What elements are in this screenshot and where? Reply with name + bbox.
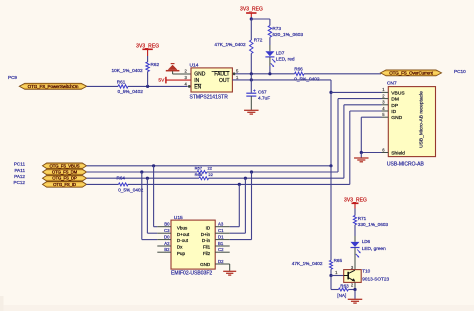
svg-text:OTG_FS_OverCurrent: OTG_FS_OverCurrent [389,71,433,76]
wire U15 GND [229,264,231,271]
capacitor C67 [250,80,252,93]
svg-text:C1: C1 [218,228,224,233]
wire ID riser to CN7 pin4 [349,111,351,184]
svg-text:22: 22 [208,172,213,177]
svg-text:ID: ID [391,109,396,115]
wire GND pin stub [173,73,191,75]
wire R62 to EN line [147,72,149,87]
wire to R73 branch [251,18,270,20]
svg-text:R63: R63 [340,283,349,288]
resistor R73 [268,26,271,38]
wire DM drop to U15 D-out [141,172,143,240]
svg-text:B1: B1 [218,241,224,246]
port OTG_FS_DM [43,169,87,175]
wire DP drop to U15 D+out [146,178,148,233]
svg-text:Shield: Shield [391,151,405,157]
port OTG_FS_ID [43,182,87,188]
svg-text:LD7: LD7 [276,51,285,56]
svg-text:PA12: PA12 [14,174,25,179]
svg-text:LED, green: LED, green [362,246,386,252]
wire VBUS drop to U15 [153,166,155,227]
pin EN bubble [188,85,191,88]
wire emitter [354,282,356,289]
wire 5V to IN pin [166,79,191,81]
svg-text:GND: GND [194,72,206,78]
svg-text:OTG_FS_DP: OTG_FS_DP [52,176,77,181]
wire DP right drop to U15 D+in [244,178,246,233]
wire base [331,275,344,277]
wire R73 to LD7 [269,37,271,45]
svg-text:OTG_FS_ID: OTG_FS_ID [53,182,76,187]
svg-text:OTG_FS_VBUS: OTG_FS_VBUS [50,163,80,168]
svg-text:U14: U14 [190,63,199,69]
U15 right pin stubs [215,226,230,228]
svg-text:GND: GND [391,115,402,121]
svg-text:330_1%_0603: 330_1%_0603 [358,222,389,227]
resistor R63 [339,288,349,291]
resistor R66 [295,72,304,75]
svg-text:USB-MICRO-AB: USB-MICRO-AB [387,161,425,167]
svg-text:R65: R65 [334,258,343,263]
svg-text:D0: D0 [164,234,170,239]
wire DP flag line [87,177,200,179]
svg-text:C67: C67 [258,90,267,95]
svg-text:CN7: CN7 [387,81,397,87]
svg-text:OTG_FS_PowerSwitchOn: OTG_FS_PowerSwitchOn [28,84,79,89]
op-amp U14 body [191,68,232,92]
wire DP riser to CN7 pin3 [343,105,345,178]
junction 3V3 split [250,17,253,20]
svg-text:R67: R67 [195,166,203,171]
CN7 pin stubs [382,91,389,93]
resistor R61 [118,85,128,88]
wire ID flag line [87,183,119,185]
wire DM flag line [87,171,198,173]
wire R63 to emitter node [348,289,355,291]
svg-text:B2: B2 [164,247,170,252]
ground at C67 [244,110,258,114]
LED LD7 [265,51,274,56]
svg-text:B0: B0 [164,222,170,227]
svg-text:OTG_FS_DM: OTG_FS_DM [52,170,78,175]
wire OUT vertical to VBUS [250,74,252,80]
svg-text:0_5%_0402: 0_5%_0402 [118,188,143,193]
U15 left pin stubs [157,226,171,228]
junction GND/shield [360,151,363,154]
ground at U15 [223,271,236,275]
junction VBUS riser [329,164,332,167]
svg-text:R71: R71 [358,216,367,221]
wire 3V3 to R62 [147,56,149,62]
svg-text:Fil2: Fil2 [203,251,211,256]
svg-text:C2: C2 [218,247,224,252]
svg-text:PC12: PC12 [14,180,26,185]
svg-text:PC9: PC9 [8,75,17,80]
svg-text:3V3_REG: 3V3_REG [344,197,367,203]
svg-text:STMPS2141STR: STMPS2141STR [190,95,229,101]
svg-text:10K_1%_0402: 10K_1%_0402 [112,68,144,74]
svg-text:3V3_REG: 3V3_REG [240,6,263,12]
svg-text:D+in: D+in [201,232,211,237]
svg-text:R66: R66 [294,66,303,71]
wire LD7 cathode to FAULT line [269,57,271,66]
wire R65 to base node [330,269,332,275]
ground at U14 GND pin [166,64,180,71]
port OTG_FS_PowerSwitchOn [19,83,86,89]
wire CN7 shield [361,152,381,154]
svg-text:DM: DM [391,97,399,103]
svg-text:PC10: PC10 [454,69,466,74]
wire VBUS flag line [87,165,332,167]
svg-text:4.7uF: 4.7uF [258,96,270,102]
junction emitter/R63 [353,288,356,291]
svg-text:47K_1%_0402: 47K_1%_0402 [292,261,323,266]
svg-text:D1: D1 [218,234,224,239]
svg-text:R61: R61 [117,79,126,84]
junction R62/EN [146,85,149,88]
svg-text:D+out: D+out [177,232,190,237]
wire R71 to LD6 [354,225,356,236]
svg-text:PA11: PA11 [14,168,25,173]
svg-text:D-out: D-out [177,238,189,243]
svg-text:LED, red: LED, red [276,57,295,63]
resistor R67 [197,171,207,174]
svg-text:0_5%_0402: 0_5%_0402 [118,89,144,95]
wire ID drop to U15 A3 [238,184,240,226]
wire LD6 to collector [354,248,356,270]
svg-text:Dx: Dx [177,245,183,250]
svg-text:5V: 5V [158,78,165,84]
resistor R68 [199,177,209,180]
svg-text:[NA]: [NA] [337,293,346,298]
port OTG_FS_OverCurrent [381,70,442,76]
transistor T10 [344,270,362,283]
svg-text:D2: D2 [218,259,224,264]
wire ID line right [128,183,350,185]
svg-text:Vbus: Vbus [177,225,188,230]
svg-text:USB_Micro-AB receptacle: USB_Micro-AB receptacle [419,91,425,148]
wire base node down to R63 [330,276,332,290]
svg-text:IN: IN [194,78,199,84]
wire DM line right [207,171,338,173]
svg-text:9013-SOT23: 9013-SOT23 [362,276,389,281]
wire VBUS to CN7 [331,91,382,93]
svg-text:R64: R64 [117,176,126,181]
svg-text:47K_1%_0402: 47K_1%_0402 [214,42,246,48]
svg-text:Pup: Pup [177,251,186,256]
resistor R62 [146,62,149,72]
svg-text:LD6: LD6 [362,239,371,244]
port OTG_FS_DP [43,175,87,181]
svg-text:R62: R62 [151,62,160,67]
junction C67/OUT [250,78,253,81]
svg-text:620_1%_0603: 620_1%_0603 [272,32,303,38]
svg-text:VBUS: VBUS [391,90,405,96]
junction LD7/FAULT [268,72,271,75]
wire OUT line [232,79,331,81]
svg-text:R72: R72 [254,38,263,43]
wire DM right drop to U15 D-in [251,172,253,240]
resistor R65 [330,260,333,269]
svg-text:FAULT: FAULT [214,72,229,78]
svg-text:22: 22 [208,166,213,171]
junction VBUS to CN7 pin1 [329,91,332,94]
svg-text:D-in: D-in [202,238,211,243]
ground at CN7 [354,158,369,162]
resistor R64 [119,183,129,186]
svg-text:DP: DP [391,103,398,109]
svg-text:R68: R68 [195,172,203,177]
ground at T10 [348,299,363,303]
junction R72/FAULT [250,72,253,75]
resistor R71 [353,216,356,225]
wire EN line right of R61 [128,85,188,87]
wire R66 to port [304,73,381,75]
svg-text:OUT: OUT [219,78,230,84]
svg-text:PC11: PC11 [14,162,26,167]
svg-text:A3: A3 [218,222,224,227]
LED LD6 [351,242,360,247]
svg-text:EMIF02-USB03F2: EMIF02-USB03F2 [171,271,212,277]
junction base node [329,274,332,277]
svg-text:Fil1: Fil1 [203,245,211,250]
wire DM riser to CN7 pin2 [337,99,339,172]
svg-text:C3: C3 [164,228,170,233]
wire CN7 GND to ground [361,116,381,118]
svg-text:T10: T10 [362,269,370,274]
wire DP line right [209,177,344,179]
wire EN line left of R61 [87,85,118,87]
svg-text:R73: R73 [272,26,281,31]
svg-text:A2: A2 [164,241,170,246]
port OTG_FS_VBUS [43,163,87,169]
wire VBUS long drop [330,166,332,260]
pin FAULT bubble [233,72,236,75]
svg-text:ID: ID [206,225,211,230]
wire FAULT line [236,73,295,75]
svg-text:EN: EN [194,84,201,90]
svg-text:GND: GND [200,262,211,267]
resistor R72 [250,19,252,40]
